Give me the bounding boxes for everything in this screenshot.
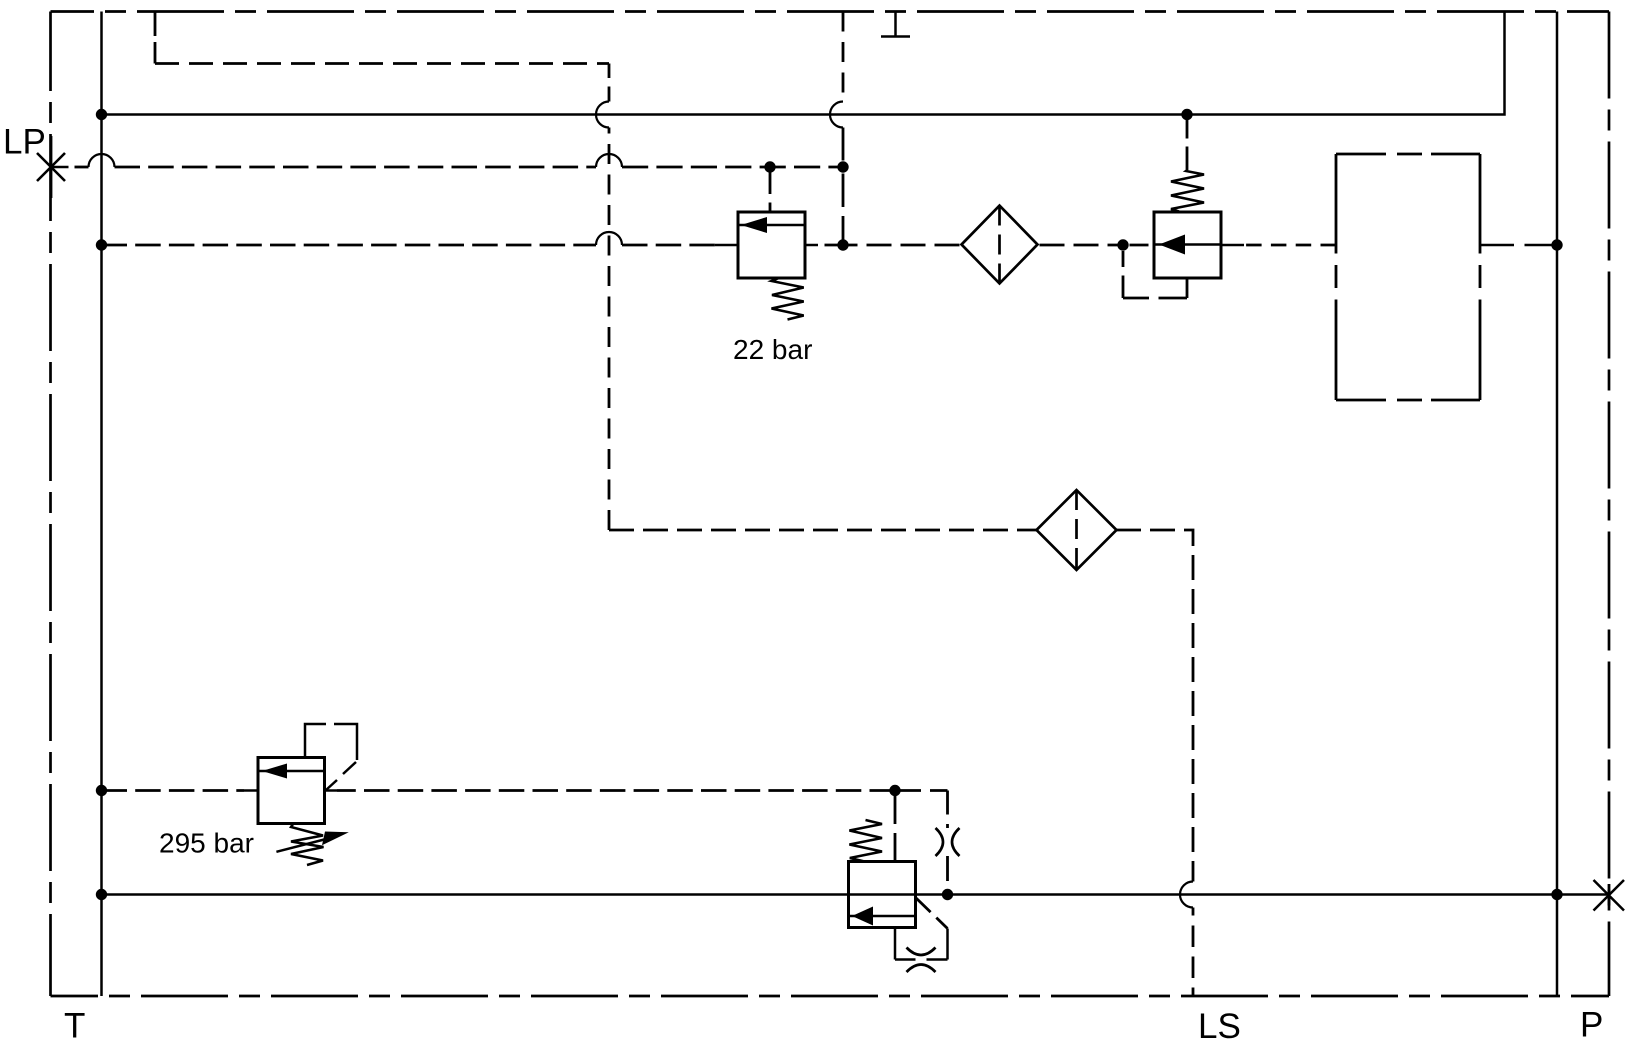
junction dot T line / 22bar line xyxy=(96,239,107,250)
wire: CV drain loop xyxy=(895,928,948,960)
manifold boundary top edge (phantom dashed) xyxy=(51,10,1610,13)
wire: node x1123 to PRV xyxy=(1130,244,1149,247)
hop of LS riser over top main line xyxy=(596,102,609,128)
wire: 22bar relief line y=245 xyxy=(102,244,1337,247)
relief valve RV1 body xyxy=(738,212,805,278)
svg-text:LP: LP xyxy=(3,123,46,162)
manifold boundary bottom edge (phantom dashed) xyxy=(51,995,1610,998)
wire: CV drain diagonal xyxy=(916,898,948,929)
svg-text:295 bar: 295 bar xyxy=(159,828,254,859)
junction dot LP line / x843 line xyxy=(837,161,848,172)
wire: RV2 to compensator node xyxy=(337,789,895,792)
svg-text:22 bar: 22 bar xyxy=(733,334,812,365)
junction dot top main / PRV spring line xyxy=(1181,109,1192,120)
compensator valve CV flow arrow xyxy=(849,907,916,926)
wire: drop from top boundary x=155 xyxy=(154,12,157,64)
junction dot T line / bottom main xyxy=(96,889,107,900)
wire: LS riser to RV1 xyxy=(622,244,715,247)
manifold boundary right edge (phantom dashed) xyxy=(1608,12,1611,997)
relief valve RV2 flow arrow xyxy=(258,764,325,779)
compensator valve CV body xyxy=(849,862,916,928)
junction dot bottom main / orifice branch xyxy=(942,889,953,900)
wire: 295bar relief line y=790.5 xyxy=(102,791,948,895)
hop of x843 line over top main line xyxy=(830,102,843,128)
hop of LP line over T line xyxy=(89,154,115,167)
RV2 pilot loop diagonal dash 1 xyxy=(343,762,356,774)
filter F1 xyxy=(962,206,1038,284)
wire: filter F1 to node x1123 xyxy=(1040,244,1124,247)
wire: solid stubs at RV2 ports xyxy=(244,789,337,792)
spring of RV2 xyxy=(291,824,324,865)
svg-text:LS: LS xyxy=(1198,1007,1241,1044)
spring of RV1 xyxy=(772,278,804,320)
hop of 22bar line over LS riser xyxy=(596,232,622,245)
wire: T line to LS riser xyxy=(102,244,597,247)
svg-text:T: T xyxy=(64,1007,85,1044)
tank line T (solid vertical) xyxy=(100,12,103,997)
junction dot T line / 295bar line xyxy=(96,785,107,796)
junction dot 295bar line / CV pilot xyxy=(889,785,900,796)
RV2 pilot loop diagonal dash 2 xyxy=(326,780,337,790)
wire: horizontal run y=530 to filter F2 xyxy=(609,529,1037,532)
blocked stub port at top boundary xyxy=(881,12,910,37)
wire: T line node to RV2 xyxy=(102,789,245,792)
wire: LP line LS riser to node x843 xyxy=(622,166,843,169)
junction dot P line / 22bar line xyxy=(1551,239,1562,250)
wire: cavity outline to P line node xyxy=(1480,244,1554,247)
spring of CV xyxy=(849,820,882,861)
junction dot T line / top main xyxy=(96,109,107,120)
manifold boundary left edge (phantom dashed) xyxy=(49,12,52,997)
wire: node to orifice corner xyxy=(895,789,948,792)
wire: PRV spring line from top main node xyxy=(1186,115,1189,171)
port LP plug symbol (crossed line on left boundary) xyxy=(37,136,69,198)
svg-text:P: P xyxy=(1580,1006,1603,1044)
wire: LP line T-line to LS riser xyxy=(115,166,597,169)
wire: LS sense path from top boundary xyxy=(155,12,1193,997)
wire: node x843 to filter F1 xyxy=(843,244,960,247)
wire: filter F2 to LS drop x=1193 xyxy=(1116,530,1193,882)
wire: x843 hop to node y245 xyxy=(842,128,845,246)
junction dot PRV pilot node xyxy=(1117,239,1128,250)
bottom main solid line P to T xyxy=(102,893,1609,896)
hop of LS drop over bottom main line xyxy=(1180,882,1193,908)
pressure reducing valve PRV body xyxy=(1154,212,1221,278)
wire: LP pilot line y=167 xyxy=(75,166,844,169)
relief valve RV1 flow arrow xyxy=(738,217,805,233)
junction dot 22bar line / x843 line xyxy=(837,239,848,250)
wire: drop to orifice xyxy=(946,791,949,829)
RV2 pilot loop top run and drop xyxy=(334,724,357,760)
wire: PRV downstream pilot loop xyxy=(1123,251,1187,298)
wire: x843 boundary to hop xyxy=(842,12,845,102)
top main solid line with riser to boundary xyxy=(102,12,1505,115)
wire: solid stubs at RV1 ports xyxy=(715,244,818,247)
pressure reducing valve PRV flow arrow xyxy=(1154,235,1221,255)
RV2 adjustment arrow head xyxy=(322,832,349,846)
RV2 pilot loop riser and top run xyxy=(305,724,326,758)
filter F2 xyxy=(1037,490,1117,570)
relief valve RV2 body xyxy=(258,758,325,824)
RV2 adjustment arrow shaft xyxy=(276,838,330,852)
wire: horizontal run y=63.5 xyxy=(155,62,609,65)
plugged port X on right boundary xyxy=(1594,880,1625,911)
wire: compensator pilot from 295bar line node xyxy=(894,791,897,862)
pressure line P (solid vertical) xyxy=(1556,12,1559,997)
wire: orifice to bottom main node xyxy=(946,856,949,895)
wire: LS drop to bottom boundary xyxy=(1192,908,1195,997)
wire: pilot stub from LP line to RV1 xyxy=(769,167,772,212)
junction dot P line / bottom main xyxy=(1551,889,1562,900)
orifice on riser x=947.5 xyxy=(936,828,960,856)
orifice on CV drain loop xyxy=(907,948,936,973)
wire: LP line stub after plug xyxy=(75,166,89,169)
spring of PRV xyxy=(1171,170,1204,212)
wire: solid stub at PRV outlet xyxy=(1221,244,1244,247)
junction dot LP line / RV1 pilot stub xyxy=(764,161,775,172)
wire: LS riser top piece xyxy=(608,64,611,102)
wire: LS riser x=609 xyxy=(608,128,611,531)
hop of LP line over LS riser xyxy=(596,154,622,167)
cartridge cavity outline (dashed rectangle) xyxy=(1336,154,1480,400)
wire: vertical pilot line x=843 from top boundary xyxy=(842,12,845,246)
wire: RV1 to node x843 xyxy=(825,244,844,247)
wire: PRV to cavity outline xyxy=(1244,244,1336,247)
